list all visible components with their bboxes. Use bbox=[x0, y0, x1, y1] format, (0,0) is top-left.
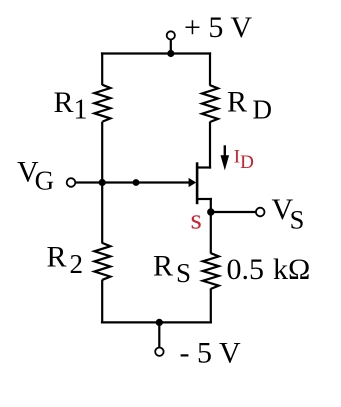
current arrow ID bbox=[224, 145, 226, 159]
wire left vertical lower bbox=[101, 280, 103, 324]
node junction dot source / VS bbox=[207, 208, 214, 215]
resistor R2 bbox=[94, 243, 110, 280]
svg-text:s: s bbox=[191, 204, 202, 236]
transistor Q1 drain stub bbox=[197, 166, 211, 168]
wire source lower bbox=[210, 288, 212, 323]
resistor RD bbox=[202, 85, 218, 122]
gate arrowhead bbox=[189, 178, 197, 187]
node junction dot bottom rail bbox=[156, 319, 163, 326]
svg-text:- 5 V: - 5 V bbox=[180, 336, 241, 369]
wire -5V stub bbox=[158, 322, 160, 347]
node junction dot VG-left wire bbox=[99, 179, 106, 186]
wire bottom rail bbox=[101, 321, 212, 323]
wire VS bbox=[211, 211, 256, 213]
transistor Q1 channel bar bbox=[196, 162, 199, 204]
svg-text:+ 5 V: + 5 V bbox=[184, 11, 252, 44]
wire +5V stub bbox=[170, 39, 172, 54]
node junction dot gate wire bbox=[133, 179, 140, 186]
wire left vertical upper bbox=[101, 52, 103, 85]
wire top rail bbox=[101, 52, 211, 54]
wire drain bbox=[209, 122, 211, 169]
wire right vertical upper bbox=[209, 52, 211, 85]
resistor R1 bbox=[94, 85, 110, 122]
svg-text:0.5 kΩ: 0.5 kΩ bbox=[227, 253, 311, 286]
terminal -5V bbox=[155, 348, 163, 356]
wire gate (VG node) bbox=[75, 181, 189, 183]
terminal +5V bbox=[167, 31, 175, 39]
node junction dot top rail bbox=[167, 50, 174, 57]
terminal VG bbox=[67, 178, 76, 187]
wire left vertical middle bbox=[101, 122, 103, 244]
resistor RS bbox=[203, 253, 219, 289]
wire source down bbox=[210, 198, 212, 254]
terminal VS bbox=[256, 208, 265, 217]
transistor Q1 source stub bbox=[197, 198, 212, 200]
